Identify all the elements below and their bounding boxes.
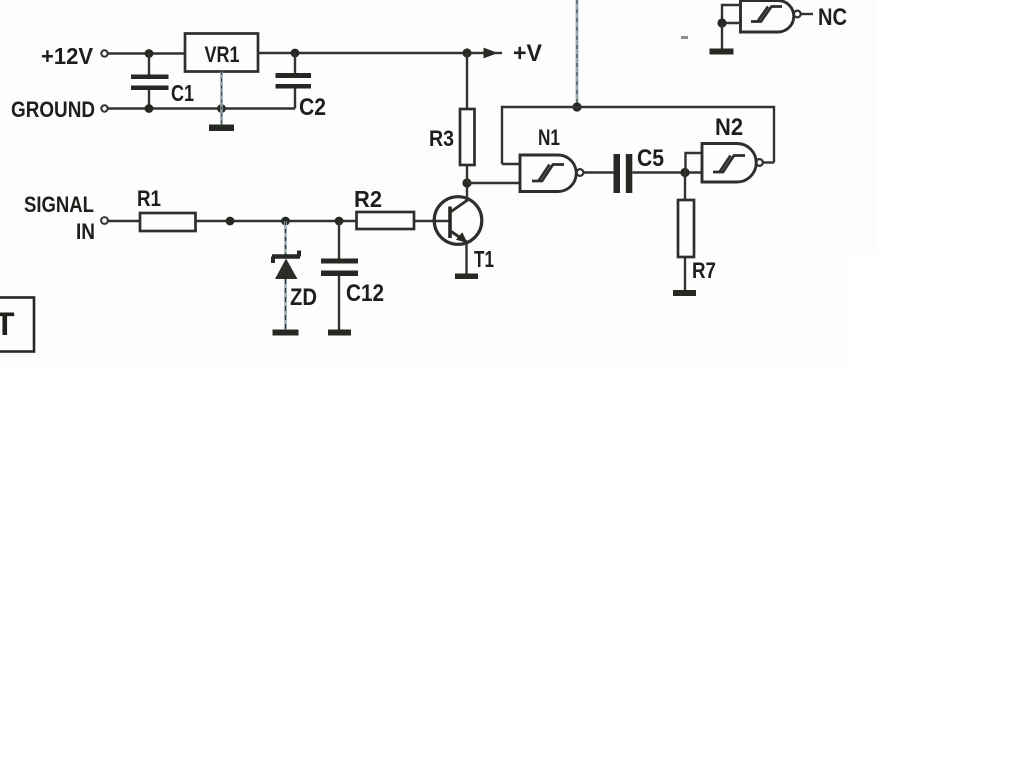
zener diode ZD <box>272 221 300 330</box>
svg-text:C2: C2 <box>299 94 326 121</box>
label C5 <box>637 145 664 172</box>
gate N2 <box>702 144 763 183</box>
terminal SIGNAL IN <box>101 217 108 224</box>
label R3 <box>429 126 454 151</box>
junction C1 top <box>145 49 154 58</box>
ground symbol under ZD <box>273 330 299 336</box>
svg-text:C1: C1 <box>171 80 194 106</box>
wire junction to N1 lower input <box>467 182 520 184</box>
svg-text:VR1: VR1 <box>205 42 240 67</box>
svg-text:N2: N2 <box>715 114 743 141</box>
junction C2 top <box>291 49 300 58</box>
wire ground rail <box>108 107 295 109</box>
wire C5 to N2 lower input <box>632 171 702 173</box>
label C1 <box>171 80 194 106</box>
label T <box>0 306 15 342</box>
label ZD <box>290 284 317 311</box>
wire N3 tie to ground <box>721 23 723 49</box>
svg-text:R1: R1 <box>137 186 161 211</box>
label VR1 <box>205 42 240 67</box>
label N2 <box>715 114 743 141</box>
label NC <box>818 4 847 31</box>
wire +V rail down to R3 <box>466 53 468 109</box>
junction N3 input tie <box>717 18 726 27</box>
label SIGNAL IN <box>24 192 95 244</box>
wire from top off-page <box>576 0 579 107</box>
wire terminal to R1 <box>108 220 140 222</box>
label C2 <box>299 94 326 121</box>
capacitor C12 <box>321 221 358 330</box>
svg-text:R3: R3 <box>429 126 454 151</box>
terminal GROUND <box>101 105 107 111</box>
terminal +12V <box>101 50 107 56</box>
wire N3 output <box>801 13 813 15</box>
resistor R1 <box>140 213 196 231</box>
label C12 <box>346 280 384 307</box>
label R7 <box>692 258 716 283</box>
capacitor C2 <box>276 53 312 109</box>
ground symbol under R7 <box>673 290 696 296</box>
svg-text:T: T <box>0 306 15 342</box>
svg-text:ZD: ZD <box>290 284 317 311</box>
wire VR1 pin to ground <box>220 72 223 126</box>
svg-text:C5: C5 <box>637 145 664 172</box>
ground symbol under VR1 <box>209 125 234 132</box>
junction feedback node <box>572 102 581 111</box>
svg-text:T1: T1 <box>474 246 494 272</box>
wire feedback top rail <box>502 107 774 164</box>
resistor R3 <box>460 109 475 165</box>
ground symbol under T1 <box>455 274 478 280</box>
svg-text:SIGNAL: SIGNAL <box>24 192 94 217</box>
label T1 <box>474 246 494 272</box>
svg-text:+V: +V <box>513 40 542 67</box>
resistor R2 <box>357 212 415 229</box>
label +12V <box>41 43 94 69</box>
junction ZD top <box>281 217 290 226</box>
wire N1 upper input stub <box>502 163 520 165</box>
svg-text:R7: R7 <box>692 258 716 283</box>
junction R3 feed <box>462 48 471 57</box>
wire N2 upper input tie <box>686 153 703 173</box>
svg-text:NC: NC <box>818 4 847 31</box>
svg-text:C12: C12 <box>346 280 384 307</box>
gate N1 <box>520 155 583 192</box>
ground symbol under N3 <box>710 49 734 55</box>
capacitor C1 <box>131 53 169 109</box>
svg-text:N1: N1 <box>538 125 560 150</box>
ground symbol under C12 <box>328 330 351 336</box>
wire +12V terminal to VR1 <box>108 52 185 54</box>
gate N3 spare <box>741 1 801 33</box>
label R1 <box>137 186 161 211</box>
capacitor C5 <box>614 154 633 193</box>
wire T1 collector up <box>466 183 468 199</box>
wire VR1 output rail to +V <box>258 52 467 54</box>
label +V <box>513 40 542 67</box>
wire R1 to R2 <box>196 220 357 222</box>
junction signal node A <box>226 217 235 226</box>
wire R2 to T1 base <box>414 220 449 222</box>
junction C1 bottom <box>145 104 154 113</box>
wire R3 to junction <box>466 165 468 183</box>
label N1 <box>538 125 560 150</box>
wire N3 inputs tied <box>722 5 741 23</box>
node +V arrow <box>470 48 502 59</box>
wire T1 emitter to ground <box>465 242 467 274</box>
junction R7 node <box>680 168 689 177</box>
resistor R7 <box>678 173 694 291</box>
junction C12 top <box>335 217 344 226</box>
label GROUND <box>11 97 95 122</box>
junction T1 collector node <box>462 178 471 187</box>
svg-text:R2: R2 <box>354 186 382 212</box>
svg-text:GROUND: GROUND <box>11 97 95 122</box>
regulator VR1 <box>185 34 258 72</box>
label R2 <box>354 186 382 212</box>
wire N2 output to feedback <box>763 161 774 163</box>
junction VR1 ground pin <box>217 104 226 113</box>
svg-text:IN: IN <box>76 219 95 244</box>
transistor T1 <box>434 197 482 245</box>
svg-text:+12V: +12V <box>41 43 94 69</box>
output box fragment <box>0 298 34 352</box>
wire N1 output to C5 <box>584 171 614 173</box>
